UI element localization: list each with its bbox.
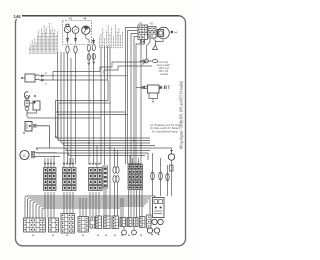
relay connectors xyxy=(142,86,144,88)
battery lead xyxy=(36,126,49,148)
left rectifier box L1 xyxy=(25,74,35,82)
wire y80 xyxy=(40,79,109,81)
inline connector F4a xyxy=(92,44,95,50)
generator M1 xyxy=(20,150,29,159)
svg-text:48: 48 xyxy=(83,17,87,21)
speedometer I3 xyxy=(82,26,90,34)
generator connectors xyxy=(32,151,35,154)
bus junction dots xyxy=(88,140,142,149)
condenser box xyxy=(33,101,40,110)
svg-text:146: 146 xyxy=(14,14,22,19)
relay wire left xyxy=(136,86,142,88)
instrument cluster dashed box xyxy=(63,21,92,45)
second feed wire xyxy=(104,66,152,74)
bottom connector row xyxy=(24,214,152,236)
generator leads xyxy=(34,152,57,154)
tachometer I2 xyxy=(72,25,79,33)
handlebar switch block S1 xyxy=(138,25,156,40)
battery B1 xyxy=(25,122,32,132)
flasher relay box M2 xyxy=(148,85,160,93)
wire y76 xyxy=(40,75,128,77)
connector pennant xyxy=(153,40,158,50)
horn H2 xyxy=(168,154,174,160)
legend key column 2 (rotated item names) xyxy=(99,24,123,48)
tail lamp bulb 1 xyxy=(152,219,157,224)
svg-text:48. Speedometer lamp: 48. Speedometer lamp xyxy=(152,131,178,134)
labels xyxy=(36,148,37,149)
inline connector F3a xyxy=(87,45,90,51)
return loop wires xyxy=(56,80,128,141)
connector stack E xyxy=(128,165,143,190)
wire y117 xyxy=(27,117,101,119)
stack-to-box verticals xyxy=(45,182,142,218)
svg-text:40: 40 xyxy=(69,17,73,21)
points loop wires xyxy=(27,103,37,113)
lower bus band xyxy=(25,196,155,218)
switch harness wires left xyxy=(126,28,164,60)
turn signal bulb left xyxy=(122,230,127,235)
stop lamp bulb 2 xyxy=(154,228,159,233)
battery connector xyxy=(34,125,37,128)
wire drop from I1 xyxy=(68,33,94,44)
switch pins xyxy=(139,27,155,38)
svg-text:models: models xyxy=(160,73,169,76)
bulb labels xyxy=(151,234,152,235)
inline bulb F2 xyxy=(74,46,77,53)
chevron below F3 xyxy=(88,63,90,65)
small component right xyxy=(170,165,174,171)
page background xyxy=(0,0,200,260)
turn signal bulb right xyxy=(132,230,137,235)
relay ticks right xyxy=(165,86,170,90)
fuse pair column xyxy=(113,167,119,183)
relay bottom bracket xyxy=(149,93,158,99)
label tick xyxy=(22,77,25,79)
ignition coil chain xyxy=(25,96,29,117)
long vertical wires xyxy=(58,40,142,216)
connector block small xyxy=(90,217,95,228)
contact breaker curl xyxy=(25,92,30,98)
connector stack A xyxy=(44,168,57,191)
main bus band xyxy=(36,136,169,156)
inline bulb F1 xyxy=(66,46,69,53)
frame top rule (darker) xyxy=(22,15,179,17)
diagram border frame xyxy=(16,16,186,246)
inline connector F3b xyxy=(87,54,90,60)
connector stack C xyxy=(89,168,103,191)
right label rows xyxy=(150,124,181,134)
connector chevrons above stacks xyxy=(44,163,141,165)
page number mask xyxy=(10,11,22,19)
connector chevron xyxy=(143,60,146,65)
connector ticks on instrument wires xyxy=(66,39,95,43)
fuse ovals right xyxy=(151,172,155,180)
pilot lamp dot xyxy=(171,31,173,33)
connector stack B xyxy=(63,168,77,191)
warning lamp bulb I1 xyxy=(64,24,70,33)
staircase feed wire xyxy=(53,62,145,80)
svg-text:G: G xyxy=(23,153,26,158)
flasher unit chain at y61 xyxy=(140,59,158,63)
label dot xyxy=(23,132,25,134)
connector ticks xyxy=(42,75,44,82)
chevron below F4 xyxy=(93,62,95,64)
inline connector F4b xyxy=(92,53,95,59)
right fuse wires xyxy=(148,153,172,196)
flasher label text block xyxy=(157,61,171,76)
legend key column 1 (rotated item names) xyxy=(29,23,58,54)
stop lamp bulb 1 xyxy=(147,228,152,233)
connector stack D xyxy=(103,166,108,188)
tail lamp bulb 2 xyxy=(158,219,163,224)
headlamp H1 xyxy=(157,27,169,39)
switch pin ticks below xyxy=(140,41,145,43)
connector hooks right of L1 xyxy=(35,75,40,80)
rear lamp unit box xyxy=(153,198,165,218)
stack feed wires from bus xyxy=(45,143,139,168)
